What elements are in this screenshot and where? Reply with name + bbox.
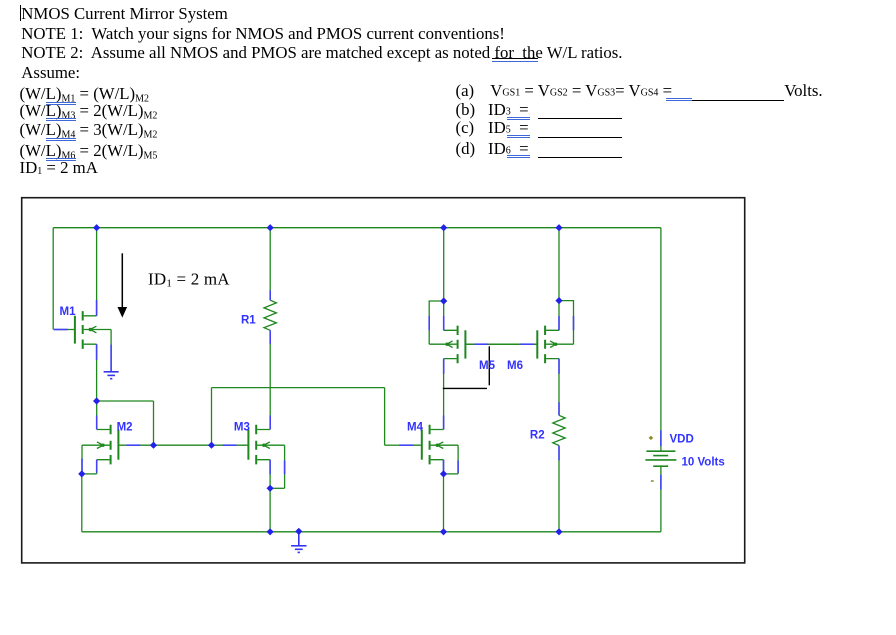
pin: R2 bottom xyxy=(558,446,560,461)
node: top rail / M6 xyxy=(555,224,562,231)
node: top rail / R1 xyxy=(267,224,274,231)
schematic border frame xyxy=(22,198,745,563)
wire: M3 body to source node xyxy=(270,487,285,489)
question d xyxy=(456,139,476,159)
svg-text:ID1 = 2 mA: ID1 = 2 mA xyxy=(148,270,230,290)
transistor M1 (NMOS) xyxy=(54,311,112,349)
wire: R1 bottom to M3 drain xyxy=(269,330,271,429)
battery plus marker xyxy=(649,436,654,440)
node: M2 source/body xyxy=(78,470,85,477)
pin: R1 top xyxy=(269,290,271,300)
pin: M1 source xyxy=(96,344,98,360)
wire: M6 source column to R2 xyxy=(558,359,560,416)
wire: gate bus horizontal to M4 xyxy=(212,387,385,389)
grammar mark under for-the xyxy=(492,61,539,63)
node: bottom rail / M3 xyxy=(267,528,274,535)
node: M1 source / M2 drain xyxy=(93,397,100,404)
wire: gate bus M2 to M3 xyxy=(154,444,212,446)
wire: node A horizontal xyxy=(97,400,154,402)
wire: M4 source node to bottom rail xyxy=(443,474,445,532)
node: M2 gate xyxy=(150,442,157,449)
pin: M2 gate xyxy=(127,444,141,446)
pin: M3 body xyxy=(284,461,286,475)
wire: battery column top xyxy=(660,228,662,452)
wire: M3 source node to bottom rail xyxy=(269,488,271,532)
pin: M2 drain xyxy=(96,416,98,430)
pin: R2 top xyxy=(558,402,560,415)
wire: left vertical to M1 gate xyxy=(52,228,54,330)
wire: M1 body column to ground xyxy=(110,330,112,372)
node: M3 source/body xyxy=(267,485,274,492)
wire: R1 column from top rail xyxy=(269,228,271,301)
question a xyxy=(456,81,475,101)
pin: M3 source xyxy=(269,460,271,475)
pin: M6 source xyxy=(558,359,560,374)
question c xyxy=(456,118,475,138)
wire: M2 source column xyxy=(96,460,98,474)
pin: M2 source xyxy=(96,460,98,473)
node: top rail / M5 xyxy=(440,224,447,231)
battery minus marker xyxy=(651,480,654,482)
svg-text:M2: M2 xyxy=(117,422,133,434)
wire: vertical down to M4 gate xyxy=(384,388,386,446)
wire: M4 body to source node xyxy=(444,473,459,475)
note 2 line xyxy=(21,43,622,63)
wire: M3 gate node vertical up xyxy=(211,388,213,446)
resistor R2 xyxy=(553,415,565,445)
pin: M4 gate xyxy=(399,444,413,446)
equation WL M1 xyxy=(20,84,150,104)
svg-text:10 Volts: 10 Volts xyxy=(682,456,725,468)
pin: M5 gate xyxy=(475,343,489,345)
svg-text:M6: M6 xyxy=(507,360,523,372)
wire: M2 body column xyxy=(81,445,83,474)
svg-text:R1: R1 xyxy=(241,315,256,327)
battery V1 plates xyxy=(645,451,676,466)
svg-text:R2: R2 xyxy=(530,430,545,442)
pin: M1 drain xyxy=(96,300,98,316)
component labels xyxy=(60,306,725,468)
wire: R2 bottom to bottom rail xyxy=(558,446,560,532)
transistor M6 (PMOS) xyxy=(537,326,573,364)
wire: top VDD rail xyxy=(53,227,661,229)
pin: M6 gate xyxy=(520,343,534,345)
wire: M1 source column down to node A xyxy=(96,344,98,401)
wire: M5 drain column from top rail xyxy=(443,228,445,331)
wire: M4 gate lead wire xyxy=(385,444,400,446)
svg-text:M4: M4 xyxy=(407,422,424,434)
pin: M3 drain xyxy=(269,416,271,430)
transistor M5 (PMOS, mirrored) xyxy=(429,326,537,364)
grammar marks under equations xyxy=(46,102,76,105)
wire: M5 source to M4 drain column xyxy=(443,359,445,430)
wire: M6 body loop xyxy=(559,301,574,345)
node: M3 gate xyxy=(208,442,215,449)
ID1 value line xyxy=(20,158,98,178)
node: bottom rail / R2 xyxy=(555,528,562,535)
transistor M4 (NMOS) xyxy=(400,425,458,465)
wire: M6 drain column from top rail xyxy=(558,228,560,331)
svg-text:M3: M3 xyxy=(234,422,250,434)
blue pin segments xyxy=(54,290,661,489)
wire: M1 drain column xyxy=(96,228,98,316)
note 1 line xyxy=(21,24,505,44)
equation WL M6 xyxy=(20,141,158,161)
wire: gate line M5 to M6 xyxy=(465,343,537,345)
wire: M4 source column xyxy=(443,460,445,474)
wire: M2 source to left node xyxy=(82,473,97,475)
equation WL M3 xyxy=(20,101,158,121)
svg-text:VDD: VDD xyxy=(670,434,694,446)
wire: left vertical to bottom rail xyxy=(81,474,83,532)
pin: M6 drain xyxy=(558,316,560,330)
pin: battery plus xyxy=(660,430,662,446)
ground at bottom rail xyxy=(291,532,306,553)
wire: M5 body loop xyxy=(429,301,444,344)
svg-text:M1: M1 xyxy=(60,306,77,318)
pin: battery minus xyxy=(660,475,662,490)
pin: M4 drain xyxy=(443,416,445,430)
pin: M1 body xyxy=(110,345,112,372)
node: M5 drain/body xyxy=(440,297,447,304)
assume line xyxy=(21,63,80,83)
pin: M6 body xyxy=(573,316,575,330)
title line xyxy=(21,4,228,24)
underline of for-the xyxy=(492,58,539,59)
wire: M3 body column xyxy=(284,445,286,488)
wire: M4 body column xyxy=(457,445,459,474)
pin: M5 body xyxy=(428,316,430,330)
transistor M2 (NMOS, mirrored) xyxy=(82,425,154,465)
ground for M1 body xyxy=(104,372,119,379)
wire: M2 drain column from node A xyxy=(96,401,98,430)
wire: M3 source column xyxy=(269,460,271,489)
svg-text:M5: M5 xyxy=(479,360,496,372)
node: M6 drain/body xyxy=(555,297,562,304)
pin: M4 source xyxy=(443,460,445,473)
pin: M1 gate xyxy=(54,329,68,331)
text cursor xyxy=(20,5,21,21)
transistor M3 (NMOS) xyxy=(212,425,285,465)
pin: M3 gate xyxy=(223,444,237,446)
pin: R1 bottom xyxy=(269,330,271,344)
pin: M2 body xyxy=(81,459,83,472)
node: bottom rail / ground xyxy=(295,528,302,535)
node: top rail / M1 drain xyxy=(93,224,100,231)
black link: M5/M6 gates to M4 drain node xyxy=(488,346,490,385)
wire: bottom ground rail xyxy=(82,531,661,533)
pin: M5 source xyxy=(443,359,445,374)
wire: vertical into M2 gate node xyxy=(153,401,155,445)
pin: M4 body xyxy=(457,461,459,474)
pin: M5 drain xyxy=(443,316,445,330)
node: bottom rail / M4 xyxy=(440,528,447,535)
question b xyxy=(456,100,476,120)
current arrow ID1 xyxy=(121,253,123,307)
wire: battery column bottom xyxy=(660,466,662,532)
node: M4 source/body xyxy=(440,470,447,477)
resistor R1 xyxy=(264,300,276,330)
equation WL M4 xyxy=(20,120,158,140)
